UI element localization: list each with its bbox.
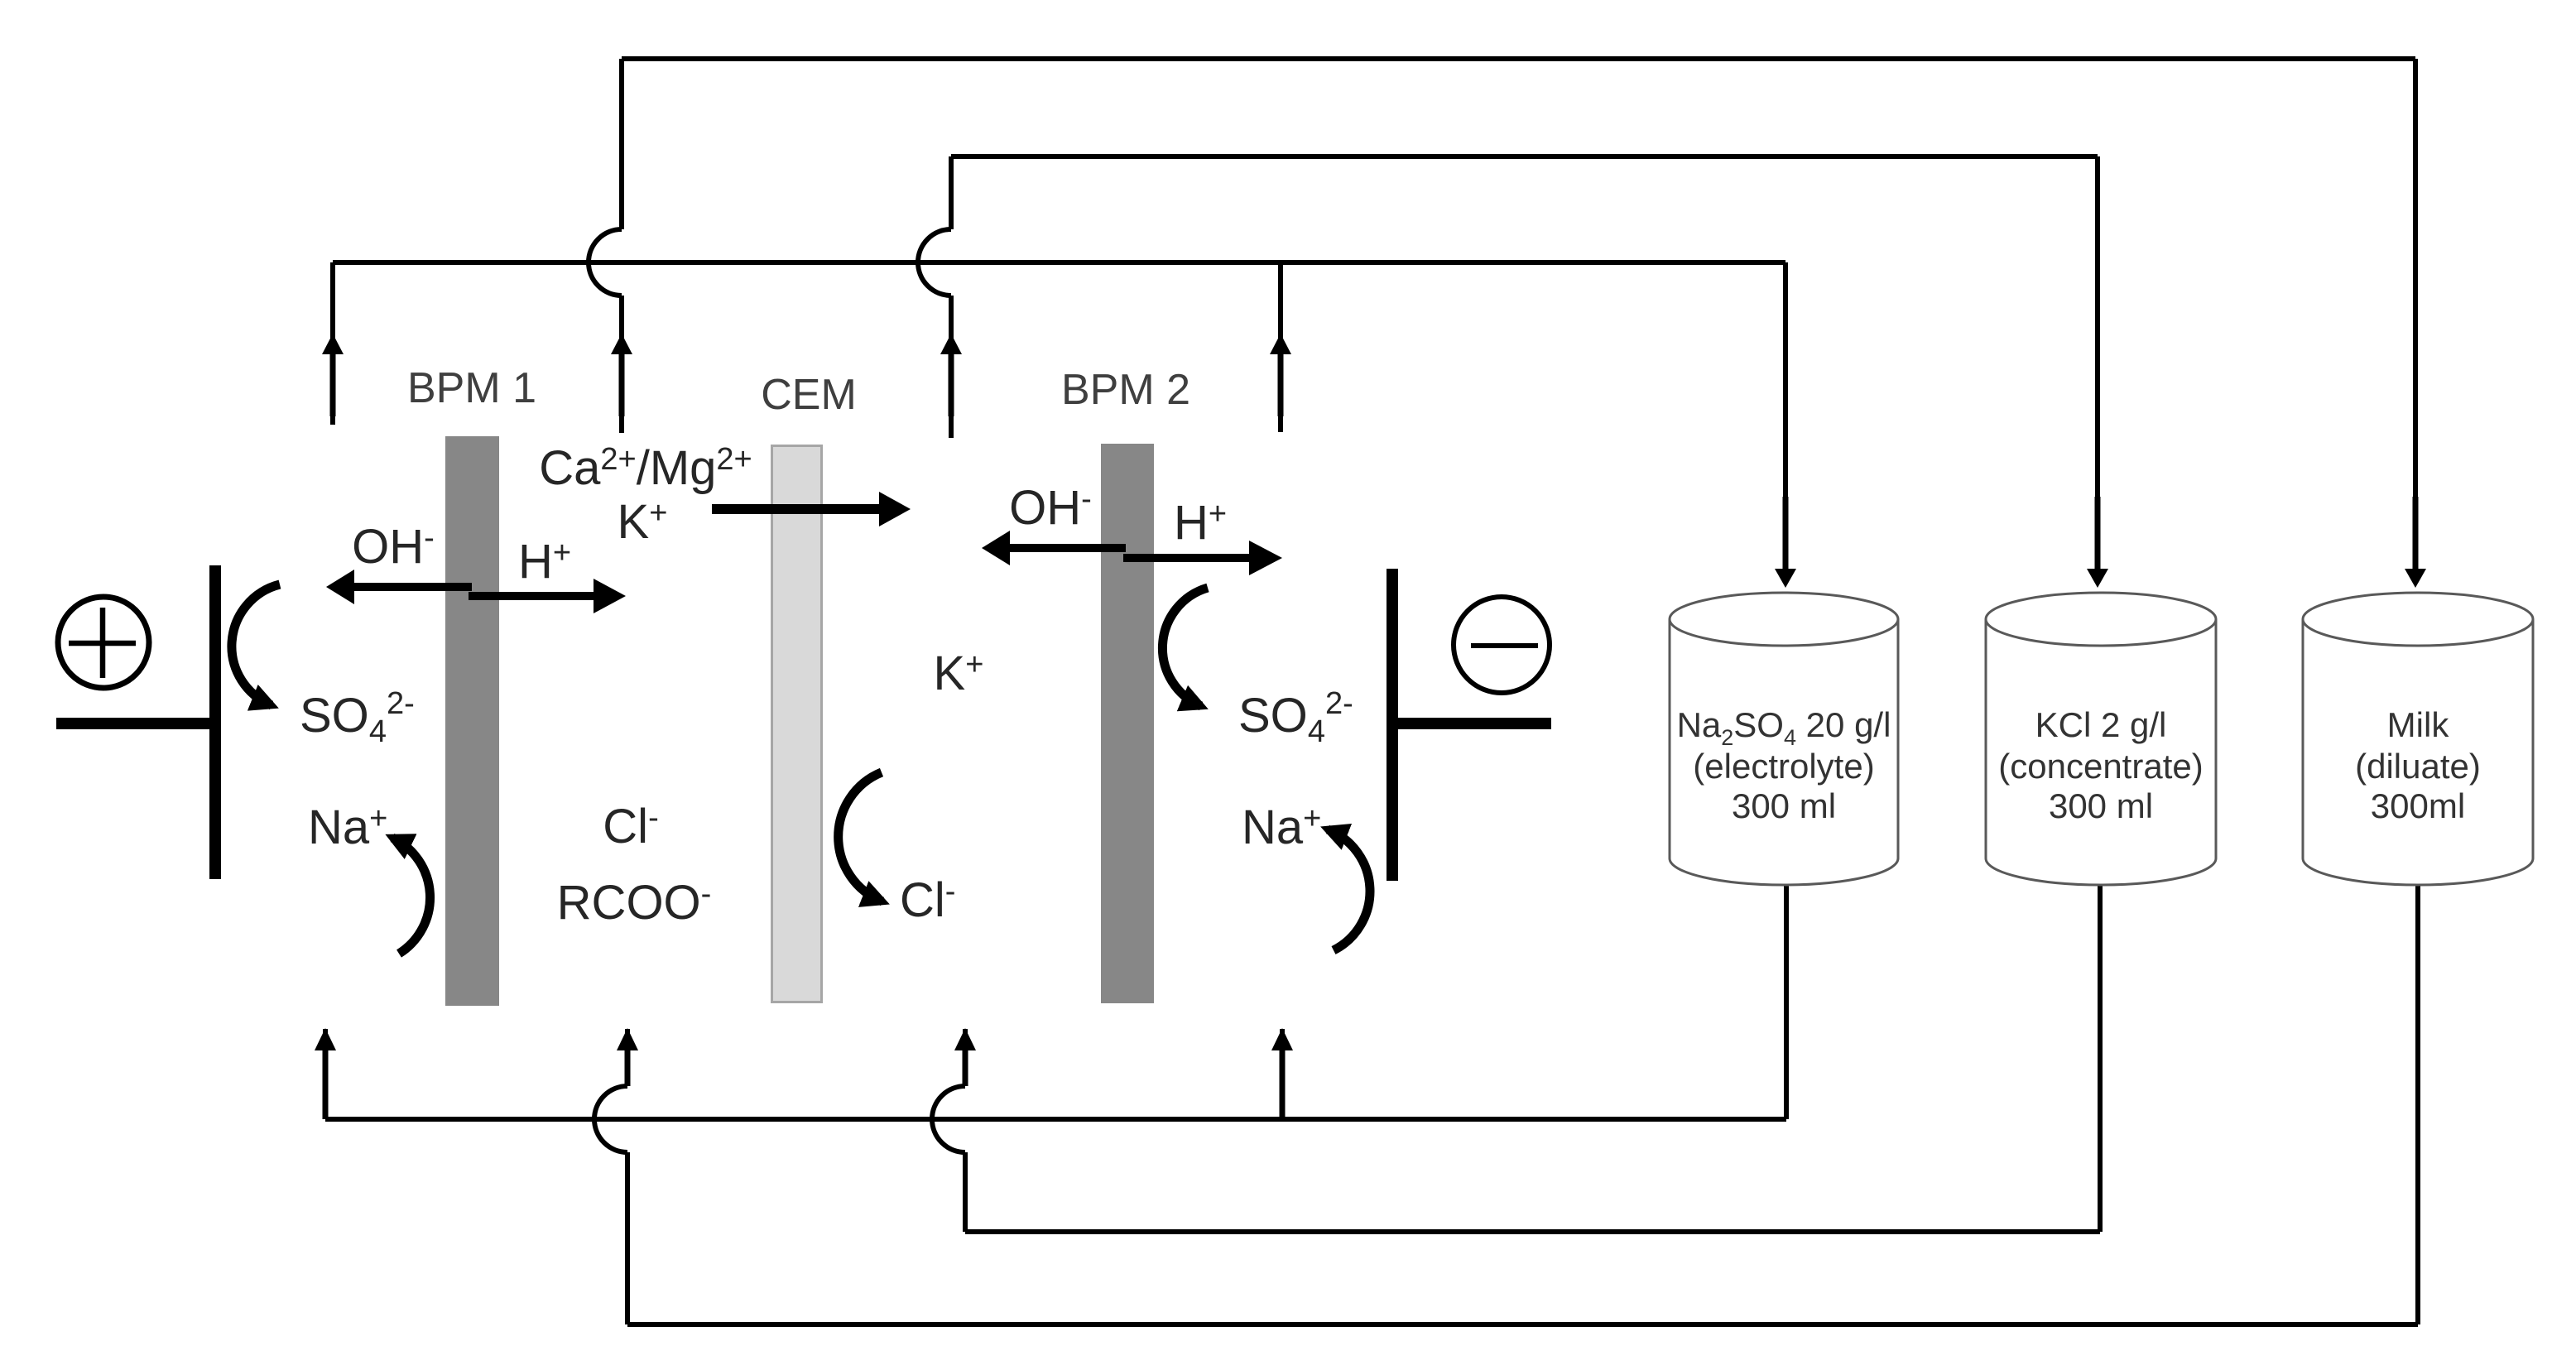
wire electrolyte-return bottom horizontal: [325, 1117, 1786, 1122]
arrowhead into kcl tank: [2087, 569, 2108, 588]
flow arrow up anode inlet: [315, 1028, 336, 1050]
anode plus symbol: [58, 597, 149, 688]
svg-text:(diluate): (diluate): [2355, 747, 2481, 786]
arrow Ca/Mg/K right across CEM: [712, 504, 879, 514]
tank Milk cylinder: [2303, 593, 2533, 885]
wire kcl outlet vertical below hop: [949, 296, 954, 438]
cathode lead: [1398, 718, 1551, 729]
curved arrow Cl- at CEM: [839, 772, 882, 901]
wire electrolyte-loop right vertical down to Na2SO4 tank: [1783, 262, 1788, 569]
wire milk-loop left vertical upper: [619, 59, 624, 229]
wire kcl-loop left vertical upper: [949, 156, 954, 229]
svg-text:Milk: Milk: [2387, 705, 2450, 744]
wire Milk tank bottom outlet vertical: [2415, 885, 2420, 1324]
tank KCl cylinder: [1986, 593, 2216, 885]
wire kcl-loop right vertical down to kcl tank: [2095, 156, 2100, 569]
svg-text:CEM: CEM: [761, 371, 857, 419]
flow arrow up milk inlet: [617, 1028, 638, 1050]
tank Na2SO4 cylinder: [1670, 593, 1898, 885]
wire cathode compartment outlet vertical: [1278, 262, 1283, 432]
wire anode compartment inlet vertical: [323, 1029, 328, 1119]
wire KCl tank bottom outlet vertical: [2098, 885, 2103, 1232]
svg-text:(concentrate): (concentrate): [1998, 747, 2203, 786]
membrane BPM1 bar: [445, 436, 499, 1006]
wire hop over electrolyte-return at (758,1352): [594, 1086, 627, 1152]
membrane BPM2 bar: [1101, 444, 1154, 1003]
anode electrode bar: [209, 565, 221, 879]
wire anode compartment outlet vertical: [330, 262, 335, 425]
curved arrow SO4 at BPM2: [1162, 588, 1208, 706]
flow arrow up milk outlet: [611, 334, 632, 354]
wire milk inlet vertical lower: [625, 1152, 630, 1324]
anode lead: [56, 718, 218, 729]
wire Na2SO4 tank bottom outlet vertical: [1784, 885, 1789, 1119]
curved arrow Na+ at anode: [392, 838, 430, 954]
membrane CEM bar: [772, 446, 822, 1002]
arrow H+ right across BPM2: [1123, 554, 1249, 562]
arrowhead into milk tank: [2405, 569, 2426, 588]
curved arrow Na+ at BPM2: [1328, 829, 1370, 950]
wire milk-return bottom horizontal: [627, 1322, 2418, 1327]
flow arrow up kcl inlet: [954, 1028, 976, 1050]
wire cathode compartment inlet vertical: [1280, 1029, 1285, 1119]
wire milk inlet vertical upper: [625, 1029, 630, 1086]
arrow OH- left across BPM1: [354, 583, 472, 591]
arrow OH- left across BPM2: [1010, 544, 1126, 552]
svg-text:BPM 1: BPM 1: [407, 364, 536, 412]
wire kcl inlet vertical upper: [963, 1029, 968, 1086]
svg-text:BPM 2: BPM 2: [1061, 366, 1190, 414]
svg-text:KCl 2 g/l: KCl 2 g/l: [2035, 705, 2167, 744]
cathode minus symbol: [1454, 597, 1550, 693]
svg-text:300ml: 300ml: [2371, 786, 2465, 825]
svg-text:OH-: OH-: [352, 520, 435, 574]
wire kcl-loop top horizontal: [951, 154, 2098, 159]
wire hop over electrolyte line at (751,317): [589, 229, 622, 296]
flow arrow up anode outlet: [322, 334, 344, 354]
cathode electrode bar: [1387, 569, 1398, 881]
wire milk outlet vertical below hop: [619, 296, 624, 433]
wire kcl-return bottom horizontal: [965, 1229, 2100, 1234]
wire milk-loop right vertical down to milk tank: [2413, 59, 2418, 569]
flow arrow up kcl outlet: [940, 334, 962, 354]
wire kcl inlet vertical lower: [963, 1152, 968, 1232]
svg-text:300 ml: 300 ml: [1732, 786, 1836, 825]
svg-text:OH-: OH-: [1009, 481, 1092, 535]
arrow H+ right across BPM1: [469, 592, 594, 600]
svg-text:(electrolyte): (electrolyte): [1693, 747, 1874, 786]
wire hop over electrolyte-return at (1164,1352): [932, 1086, 965, 1152]
arrowhead into Na2SO4 tank: [1775, 569, 1796, 588]
wire electrolyte-loop top horizontal: [333, 260, 1785, 265]
flow arrow up cathode inlet: [1271, 1028, 1293, 1050]
flow arrow up cathode outlet: [1270, 334, 1291, 354]
wire hop over electrolyte line at (1149,317): [918, 229, 951, 296]
svg-text:300 ml: 300 ml: [2049, 786, 2153, 825]
curved arrow SO4 at anode: [232, 584, 280, 705]
svg-text:RCOO-: RCOO-: [557, 876, 712, 930]
wire milk-loop top horizontal: [622, 56, 2415, 61]
